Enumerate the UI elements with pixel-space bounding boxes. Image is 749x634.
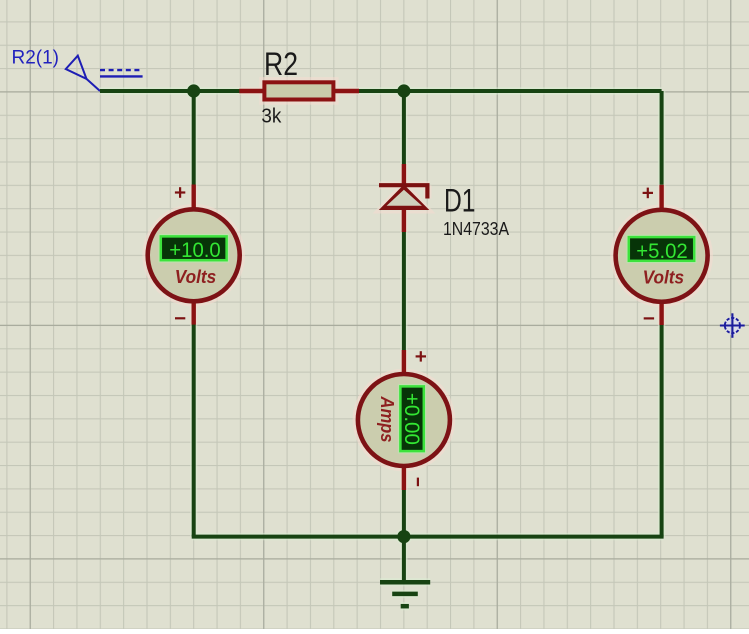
voltmeter right plus mark (643, 188, 653, 199)
svg-text:+5.02: +5.02 (636, 239, 688, 263)
resistor R2 right pin (335, 89, 359, 93)
voltmeter right display (629, 237, 694, 261)
svg-text:1N4733A: 1N4733A (443, 218, 510, 239)
svg-text:Volts: Volts (643, 267, 685, 287)
voltmeter right body (616, 210, 708, 302)
wire halo underlay (100, 79, 711, 606)
wire middle branch lower (402, 490, 406, 537)
voltmeter right bottom pin (659, 303, 663, 326)
voltmeter left bottom pin (191, 302, 195, 325)
junction node bottom-middle (397, 530, 410, 543)
svg-text:Amps: Amps (377, 396, 397, 443)
voltmeter left plus mark (175, 187, 185, 198)
junction node top-left (187, 84, 200, 97)
ammeter body (358, 374, 450, 466)
probe tape mark dashed (100, 69, 143, 71)
zener diode D1 cathode bar (379, 183, 430, 187)
wire ground stem (402, 537, 406, 582)
wire middle branch mid (402, 232, 406, 350)
svg-text:Volts: Volts (175, 267, 217, 287)
zener diode D1 cathode bend (425, 185, 429, 198)
junction node top-middle (397, 84, 410, 97)
zener diode D1 top pin (402, 164, 406, 184)
svg-text:D1: D1 (444, 183, 476, 219)
wire right branch upper (660, 91, 664, 185)
wire middle branch upper (402, 91, 406, 164)
origin marker crosshair (720, 313, 745, 338)
wire top horizontal (100, 89, 662, 93)
ammeter minus mark (417, 478, 419, 487)
voltage probe arrow (66, 56, 100, 91)
wire left branch lower (192, 324, 196, 536)
svg-text:R2(1): R2(1) (12, 47, 60, 68)
resistor R2 body (264, 82, 333, 99)
zener diode D1 bottom pin (402, 209, 406, 232)
wire left branch upper (192, 91, 196, 185)
svg-text:+10.0: +10.0 (169, 238, 221, 262)
voltmeter left top pin (191, 185, 195, 210)
resistor R2 left pin (239, 89, 262, 93)
svg-text:R2: R2 (264, 46, 298, 82)
ammeter top pin (402, 350, 406, 374)
voltmeter right top pin (659, 185, 663, 210)
ammeter display (400, 386, 423, 451)
zener diode D1 triangle (379, 185, 430, 211)
probe tape mark solid (100, 75, 143, 77)
svg-text:+0.00: +0.00 (400, 393, 424, 445)
ground (380, 582, 430, 606)
ammeter plus mark (416, 351, 426, 361)
voltmeter right minus mark (644, 317, 654, 319)
voltmeter left body (148, 209, 240, 301)
wire right branch lower (660, 325, 664, 537)
voltmeter left display (161, 236, 227, 260)
svg-text:3k: 3k (261, 105, 282, 128)
wire bottom horizontal (192, 535, 664, 539)
voltmeter left minus mark (175, 317, 185, 319)
ammeter bottom pin (402, 466, 406, 490)
